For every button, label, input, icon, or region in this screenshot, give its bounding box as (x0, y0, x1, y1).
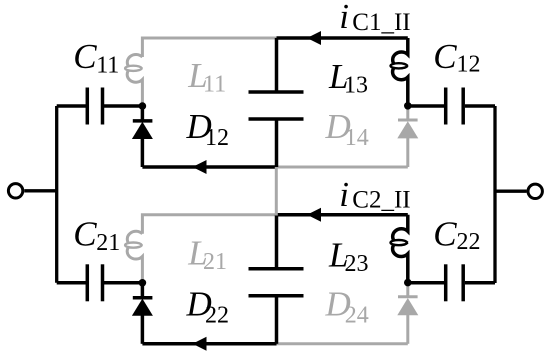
svg-text:23: 23 (345, 251, 369, 277)
svg-text:13: 13 (344, 73, 368, 99)
svg-text:11: 11 (203, 72, 226, 98)
svg-text:i: i (339, 0, 349, 36)
svg-text:C1_II: C1_II (352, 9, 410, 36)
svg-text:C: C (73, 215, 97, 254)
svg-text:14: 14 (345, 125, 369, 151)
svg-text:11: 11 (96, 53, 119, 79)
svg-text:C: C (433, 214, 457, 253)
svg-text:22: 22 (457, 229, 481, 255)
svg-text:12: 12 (457, 52, 481, 78)
svg-text:12: 12 (205, 125, 229, 151)
svg-text:24: 24 (345, 303, 369, 329)
svg-text:i: i (339, 175, 349, 214)
svg-text:C2_II: C2_II (352, 187, 410, 214)
svg-text:C: C (73, 37, 97, 76)
svg-text:22: 22 (205, 303, 229, 329)
svg-text:C: C (433, 37, 457, 76)
svg-text:21: 21 (203, 249, 227, 275)
svg-text:21: 21 (96, 230, 120, 256)
